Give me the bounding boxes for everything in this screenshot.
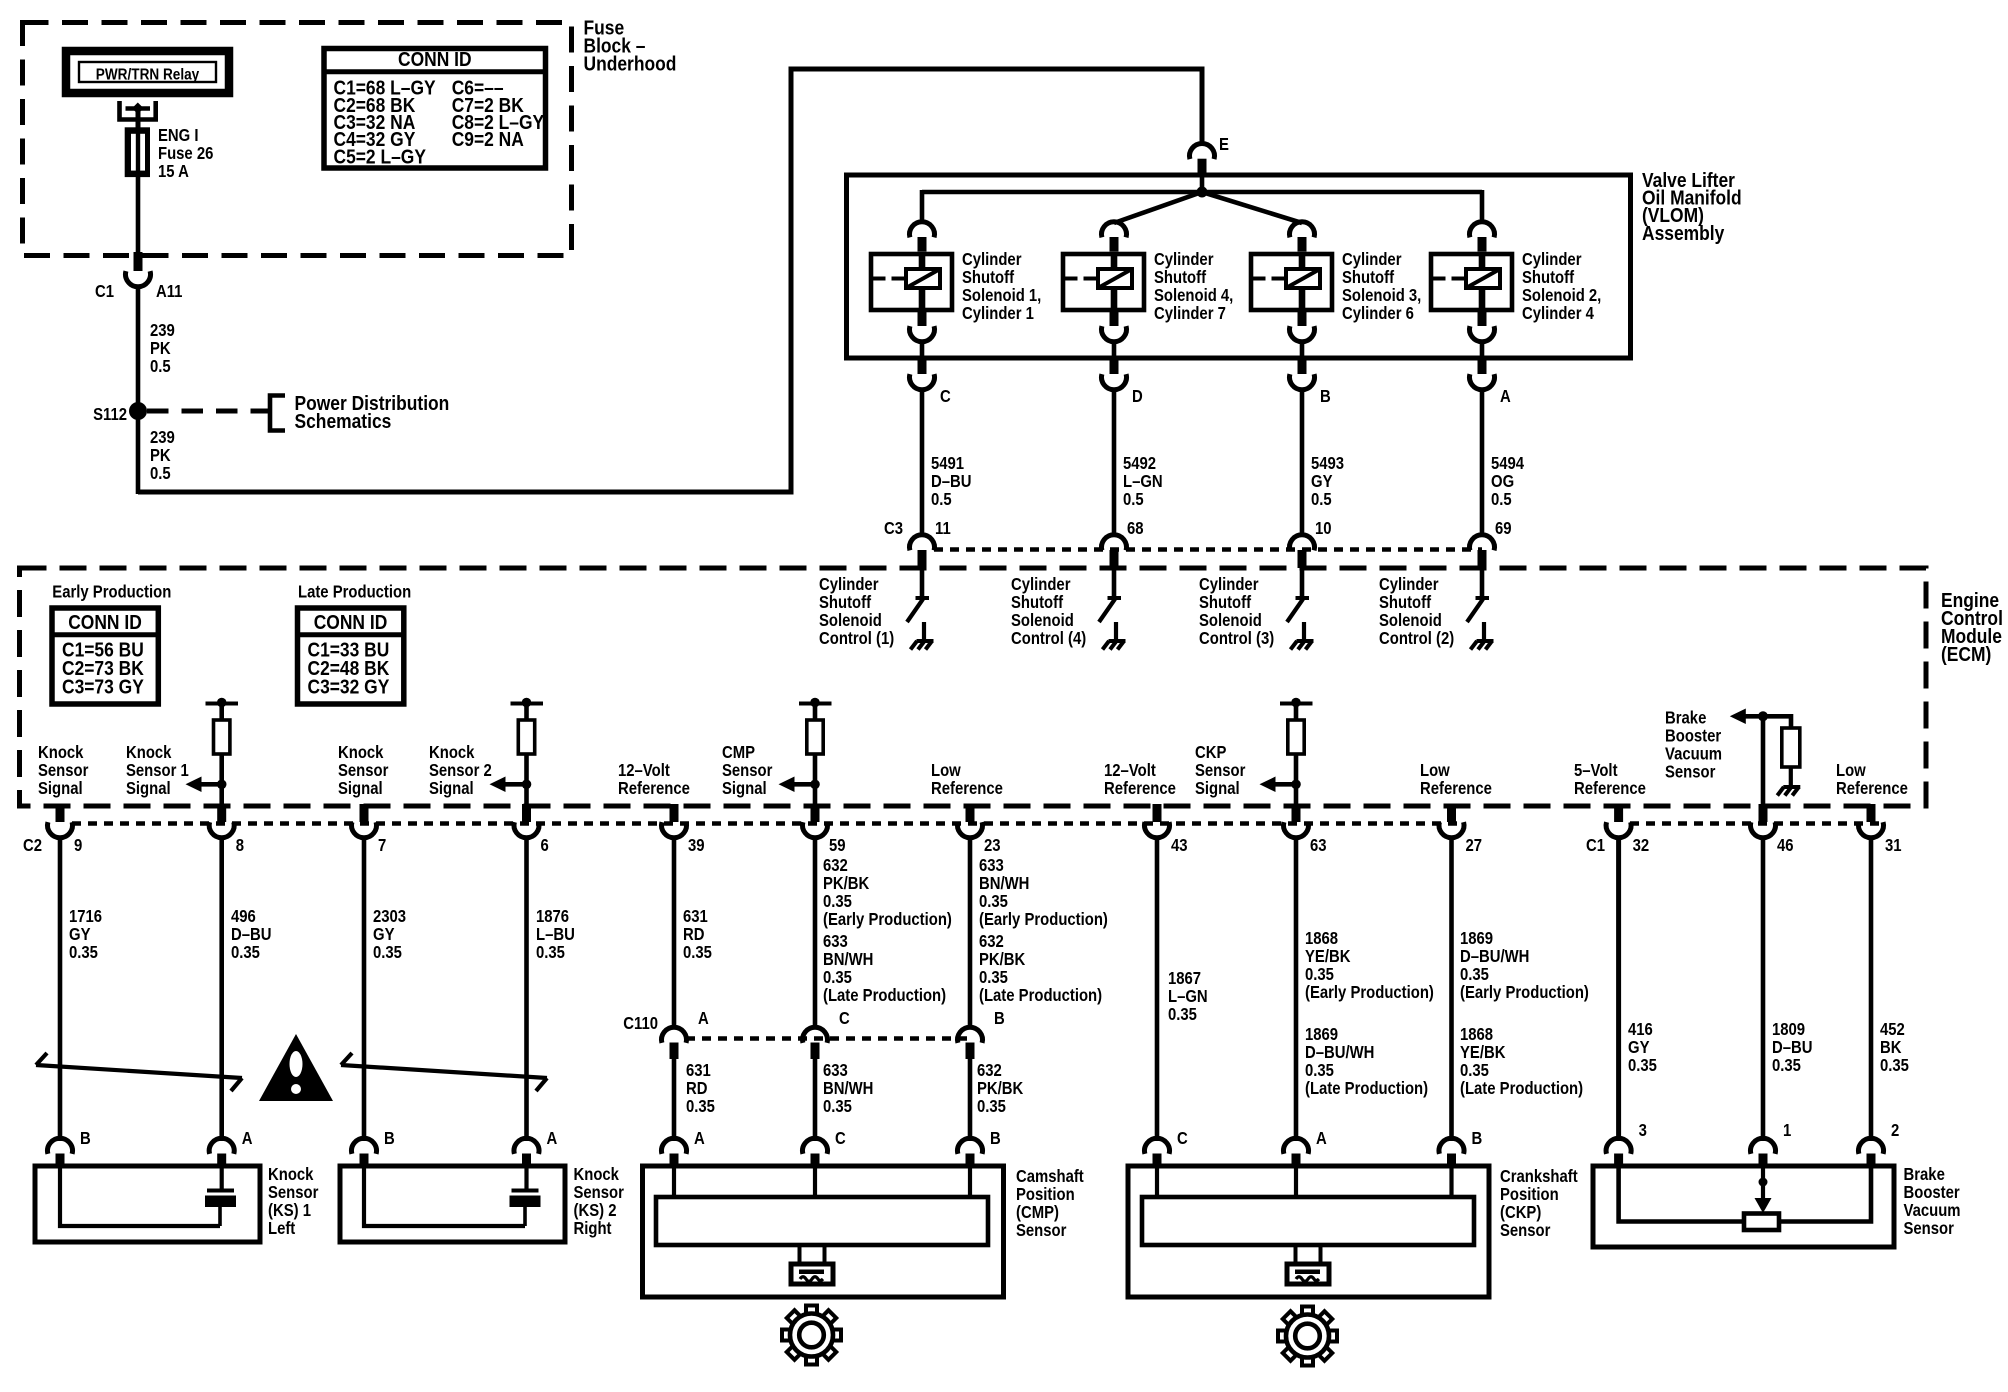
svg-text:YE/BK: YE/BK xyxy=(1460,1043,1506,1062)
svg-text:0.35: 0.35 xyxy=(1772,1056,1801,1075)
camshaft position CMP sensor box xyxy=(662,1138,687,1154)
svg-text:C: C xyxy=(835,1129,846,1148)
svg-text:Signal: Signal xyxy=(338,779,383,798)
svg-text:0.5: 0.5 xyxy=(1311,490,1332,509)
svg-text:1: 1 xyxy=(1783,1121,1791,1140)
svg-text:11: 11 xyxy=(935,519,951,538)
crankshaft position CKP sensor box xyxy=(1145,1138,1170,1154)
svg-text:D–BU: D–BU xyxy=(931,472,971,491)
svg-text:Sensor: Sensor xyxy=(1195,761,1246,780)
svg-text:1869: 1869 xyxy=(1305,1025,1338,1044)
svg-text:Signal: Signal xyxy=(1195,779,1240,798)
svg-text:Signal: Signal xyxy=(126,779,171,798)
svg-text:239: 239 xyxy=(150,428,175,447)
svg-text:Fuse 26: Fuse 26 xyxy=(158,144,213,163)
svg-text:0.35: 0.35 xyxy=(1460,965,1489,984)
wire 1716 GY 0.35 xyxy=(58,837,63,1141)
svg-text:Knock: Knock xyxy=(268,1165,314,1184)
svg-text:6: 6 xyxy=(541,836,549,855)
svg-text:1716: 1716 xyxy=(69,907,102,926)
svg-text:C9=2 NA: C9=2 NA xyxy=(452,129,524,152)
svg-text:3: 3 xyxy=(1639,1121,1647,1140)
svg-text:2: 2 xyxy=(1891,1121,1899,1140)
svg-text:Signal: Signal xyxy=(38,779,83,798)
svg-text:Vacuum: Vacuum xyxy=(1665,744,1722,763)
CKP sensor signal circuit pin 63 xyxy=(1280,702,1313,706)
svg-text:(CKP): (CKP) xyxy=(1500,1203,1541,1222)
svg-text:CMP: CMP xyxy=(722,743,755,762)
svg-text:0.35: 0.35 xyxy=(1628,1056,1657,1075)
svg-text:8: 8 xyxy=(236,836,244,855)
svg-text:633: 633 xyxy=(979,856,1004,875)
svg-text:496: 496 xyxy=(231,907,256,926)
svg-text:12–Volt: 12–Volt xyxy=(618,761,670,780)
ECM pin 23 xyxy=(966,804,975,822)
svg-text:C1: C1 xyxy=(1586,836,1605,855)
svg-text:RD: RD xyxy=(686,1079,708,1098)
svg-text:0.35: 0.35 xyxy=(823,1097,852,1116)
knock sensor KS1 box xyxy=(47,1138,72,1154)
svg-text:Shutoff: Shutoff xyxy=(1522,268,1575,287)
svg-text:YE/BK: YE/BK xyxy=(1305,947,1351,966)
bracket power distribution xyxy=(270,396,285,431)
svg-text:631: 631 xyxy=(683,907,708,926)
svg-text:Solenoid: Solenoid xyxy=(819,611,882,630)
svg-text:0.35: 0.35 xyxy=(1305,1061,1334,1080)
svg-text:0.5: 0.5 xyxy=(1123,490,1144,509)
wire 632/633 pin 59 xyxy=(813,837,818,1029)
svg-text:Knock: Knock xyxy=(338,743,384,762)
wire 1869/1868 pin 27 xyxy=(1449,837,1454,1141)
svg-text:0.35: 0.35 xyxy=(1460,1061,1489,1080)
svg-text:Assembly: Assembly xyxy=(1642,223,1725,246)
svg-text:RD: RD xyxy=(683,925,705,944)
svg-text:Vacuum: Vacuum xyxy=(1904,1201,1961,1220)
svg-text:BK: BK xyxy=(1880,1038,1902,1057)
wire 452 BK 0.35 xyxy=(1869,837,1874,1141)
svg-text:ENG I: ENG I xyxy=(158,126,198,145)
svg-text:B: B xyxy=(994,1009,1005,1028)
connector C1 dotted line xyxy=(1630,821,1880,826)
svg-text:CKP: CKP xyxy=(1195,743,1227,762)
svg-text:S112: S112 xyxy=(93,405,127,424)
svg-text:L–BU: L–BU xyxy=(536,925,575,944)
svg-text:PK/BK: PK/BK xyxy=(823,874,870,893)
svg-text:Cylinder: Cylinder xyxy=(1379,575,1439,594)
svg-text:Control (1): Control (1) xyxy=(819,629,894,648)
svg-text:(ECM): (ECM) xyxy=(1941,644,1991,667)
svg-text:B: B xyxy=(80,1129,91,1148)
svg-text:Solenoid 4,: Solenoid 4, xyxy=(1154,286,1233,305)
svg-text:0.35: 0.35 xyxy=(979,968,1008,987)
svg-text:0.35: 0.35 xyxy=(1305,965,1334,984)
svg-text:Cylinder 7: Cylinder 7 xyxy=(1154,304,1226,323)
svg-text:0.35: 0.35 xyxy=(373,943,402,962)
svg-text:(Early Production): (Early Production) xyxy=(1460,983,1589,1002)
svg-text:A: A xyxy=(547,1129,558,1148)
svg-text:C2: C2 xyxy=(23,836,42,855)
svg-text:32: 32 xyxy=(1633,836,1650,855)
wire 1868/1869 pin 63 xyxy=(1294,837,1299,1141)
svg-text:Reference: Reference xyxy=(1420,779,1492,798)
svg-text:D–BU/WH: D–BU/WH xyxy=(1305,1043,1374,1062)
svg-text:CONN ID: CONN ID xyxy=(314,612,388,635)
svg-text:Signal: Signal xyxy=(722,779,767,798)
svg-text:Sensor: Sensor xyxy=(1665,762,1716,781)
svg-text:Shutoff: Shutoff xyxy=(1199,593,1252,612)
svg-text:Low: Low xyxy=(1420,761,1450,780)
wire 631 RD 0.35 lower xyxy=(672,1058,677,1141)
knock sensor 2 signal circuit pin 6 xyxy=(511,702,544,706)
svg-text:GY: GY xyxy=(373,925,395,944)
ECM pin 46 xyxy=(1759,804,1768,822)
svg-text:0.35: 0.35 xyxy=(977,1097,1006,1116)
ECM pin 43 xyxy=(1153,804,1162,822)
svg-text:27: 27 xyxy=(1466,836,1483,855)
svg-text:Cylinder: Cylinder xyxy=(1011,575,1071,594)
svg-text:Reference: Reference xyxy=(1574,779,1646,798)
svg-text:C: C xyxy=(839,1009,850,1028)
ECM pin 8 xyxy=(217,804,226,822)
svg-text:Reference: Reference xyxy=(931,779,1003,798)
svg-text:C110: C110 xyxy=(623,1014,658,1033)
svg-text:B: B xyxy=(384,1129,395,1148)
svg-text:D–BU: D–BU xyxy=(1772,1038,1812,1057)
CMP sensor signal circuit pin 59 xyxy=(799,702,832,706)
ECM pin 59 xyxy=(811,804,820,822)
svg-text:1868: 1868 xyxy=(1460,1025,1493,1044)
svg-text:Low: Low xyxy=(931,761,961,780)
svg-text:0.35: 0.35 xyxy=(536,943,565,962)
svg-text:Low: Low xyxy=(1836,761,1866,780)
ECM pin 6 xyxy=(522,804,531,822)
svg-text:(CMP): (CMP) xyxy=(1016,1203,1059,1222)
svg-text:68: 68 xyxy=(1127,519,1144,538)
svg-text:BN/WH: BN/WH xyxy=(823,1079,873,1098)
svg-text:0.35: 0.35 xyxy=(1168,1005,1197,1024)
svg-text:15 A: 15 A xyxy=(158,162,189,181)
svg-text:Shutoff: Shutoff xyxy=(1154,268,1207,287)
svg-text:1869: 1869 xyxy=(1460,929,1493,948)
svg-text:1868: 1868 xyxy=(1305,929,1338,948)
svg-text:239: 239 xyxy=(150,321,175,340)
svg-text:Booster: Booster xyxy=(1665,726,1722,745)
svg-text:5–Volt: 5–Volt xyxy=(1574,761,1618,780)
svg-text:Control (2): Control (2) xyxy=(1379,629,1454,648)
svg-text:Shutoff: Shutoff xyxy=(962,268,1015,287)
svg-text:0.35: 0.35 xyxy=(823,892,852,911)
svg-text:Cylinder: Cylinder xyxy=(1342,250,1402,269)
svg-text:A: A xyxy=(694,1129,705,1148)
svg-text:Control (4): Control (4) xyxy=(1011,629,1086,648)
wire E junction split xyxy=(1200,177,1205,192)
svg-text:Cylinder: Cylinder xyxy=(1522,250,1582,269)
svg-text:Sensor: Sensor xyxy=(1904,1219,1955,1238)
svg-text:Left: Left xyxy=(268,1219,296,1238)
wire label 239 PK 0.5 xyxy=(136,286,141,407)
svg-text:Solenoid 2,: Solenoid 2, xyxy=(1522,286,1601,305)
wire 633/632 pin 23 xyxy=(968,837,973,1029)
svg-text:CONN ID: CONN ID xyxy=(398,49,472,72)
svg-text:(KS) 2: (KS) 2 xyxy=(574,1201,617,1220)
svg-text:B: B xyxy=(1320,387,1331,406)
connector C2 dotted line xyxy=(72,821,1462,826)
relay contact symbol xyxy=(120,101,156,120)
svg-text:633: 633 xyxy=(823,1061,848,1080)
knock sensor 1 signal circuit pin 8 xyxy=(206,702,239,706)
svg-text:C3=32 GY: C3=32 GY xyxy=(308,676,390,699)
ECM pin 39 xyxy=(670,804,679,822)
svg-text:0.35: 0.35 xyxy=(683,943,712,962)
fuse ENG I Fuse 26 15A xyxy=(127,130,147,175)
ECM pin 9 xyxy=(56,804,65,822)
wire 1876 L-BU 0.35 xyxy=(524,837,529,1141)
svg-text:Cylinder 4: Cylinder 4 xyxy=(1522,304,1594,323)
svg-text:Position: Position xyxy=(1016,1185,1075,1204)
svg-text:Reference: Reference xyxy=(1836,779,1908,798)
svg-text:416: 416 xyxy=(1628,1020,1653,1039)
svg-text:D: D xyxy=(1132,387,1143,406)
svg-text:Reference: Reference xyxy=(618,779,690,798)
svg-text:C5=2 L–GY: C5=2 L–GY xyxy=(334,146,427,169)
svg-text:0.35: 0.35 xyxy=(69,943,98,962)
svg-text:(Late Production): (Late Production) xyxy=(1460,1079,1583,1098)
svg-text:Shutoff: Shutoff xyxy=(1011,593,1064,612)
splice S112 xyxy=(129,402,147,420)
harness interrupt arrow right xyxy=(341,1065,547,1078)
svg-text:Signal: Signal xyxy=(429,779,474,798)
svg-text:5493: 5493 xyxy=(1311,454,1344,473)
svg-text:Late Production: Late Production xyxy=(298,582,411,601)
svg-text:Shutoff: Shutoff xyxy=(1342,268,1395,287)
svg-text:Knock: Knock xyxy=(429,743,475,762)
wire 633 BN/WH 0.35 lower xyxy=(813,1058,818,1141)
svg-text:OG: OG xyxy=(1491,472,1514,491)
svg-text:63: 63 xyxy=(1310,836,1327,855)
knock sensor KS2 box xyxy=(352,1138,377,1154)
svg-text:PK: PK xyxy=(150,446,171,465)
ECM pin 32 xyxy=(1614,804,1623,822)
svg-text:A11: A11 xyxy=(156,282,182,301)
svg-text:0.35: 0.35 xyxy=(979,892,1008,911)
svg-text:43: 43 xyxy=(1171,836,1188,855)
svg-text:Solenoid: Solenoid xyxy=(1011,611,1074,630)
wire relay to fuse xyxy=(136,111,141,130)
dashed wire to power distribution ref xyxy=(147,409,255,414)
fuse block underhood dashed box xyxy=(23,23,572,256)
svg-text:Brake: Brake xyxy=(1665,708,1706,727)
svg-text:Sensor 1: Sensor 1 xyxy=(126,761,189,780)
svg-text:BN/WH: BN/WH xyxy=(979,874,1029,893)
svg-text:632: 632 xyxy=(823,856,848,875)
svg-text:7: 7 xyxy=(378,836,386,855)
svg-text:Knock: Knock xyxy=(38,743,84,762)
svg-text:Cylinder: Cylinder xyxy=(1154,250,1214,269)
wire S112 to VLOM feed E xyxy=(138,69,1202,492)
brake booster vacuum sensor box xyxy=(1606,1138,1631,1154)
svg-text:A: A xyxy=(1316,1129,1327,1148)
svg-text:Control (3): Control (3) xyxy=(1199,629,1274,648)
svg-text:Position: Position xyxy=(1500,1185,1559,1204)
svg-text:0.35: 0.35 xyxy=(686,1097,715,1116)
svg-text:(Early Production): (Early Production) xyxy=(979,910,1108,929)
ECM pin 7 xyxy=(360,804,369,822)
svg-text:0.35: 0.35 xyxy=(231,943,260,962)
svg-text:BN/WH: BN/WH xyxy=(823,950,873,969)
svg-text:Sensor: Sensor xyxy=(268,1183,319,1202)
svg-text:Sensor: Sensor xyxy=(1016,1221,1067,1240)
svg-text:Sensor: Sensor xyxy=(1500,1221,1551,1240)
CMP connector plug xyxy=(800,1246,825,1264)
cylinder shutoff solenoid 1 cylinder 1 xyxy=(909,222,934,238)
svg-text:(Late Production): (Late Production) xyxy=(823,986,946,1005)
svg-text:L–GN: L–GN xyxy=(1168,987,1208,1006)
svg-text:C3=73 GY: C3=73 GY xyxy=(62,676,144,699)
svg-text:Underhood: Underhood xyxy=(584,53,677,76)
svg-text:632: 632 xyxy=(977,1061,1002,1080)
svg-text:39: 39 xyxy=(688,836,705,855)
svg-text:0.5: 0.5 xyxy=(150,464,171,483)
svg-text:PWR/TRN Relay: PWR/TRN Relay xyxy=(96,67,200,84)
svg-text:Reference: Reference xyxy=(1104,779,1176,798)
svg-text:A: A xyxy=(1500,387,1511,406)
CMP gear xyxy=(782,1306,841,1365)
svg-text:Sensor: Sensor xyxy=(338,761,389,780)
svg-text:23: 23 xyxy=(984,836,1001,855)
svg-text:632: 632 xyxy=(979,932,1004,951)
svg-text:5492: 5492 xyxy=(1123,454,1156,473)
svg-text:0.5: 0.5 xyxy=(1491,490,1512,509)
wire label 239 PK 0.5 lower xyxy=(136,415,141,494)
svg-text:PK/BK: PK/BK xyxy=(979,950,1026,969)
svg-text:Sensor: Sensor xyxy=(38,761,89,780)
svg-text:5494: 5494 xyxy=(1491,454,1524,473)
svg-text:C3: C3 xyxy=(884,519,903,538)
svg-text:GY: GY xyxy=(1311,472,1333,491)
svg-text:(Late Production): (Late Production) xyxy=(1305,1079,1428,1098)
svg-text:D–BU/WH: D–BU/WH xyxy=(1460,947,1529,966)
svg-text:A: A xyxy=(242,1129,253,1148)
connector C3 row pins 11 68 10 69 xyxy=(934,547,1482,552)
wire 1809 D-BU 0.35 xyxy=(1761,837,1766,1141)
ECM pin 27 xyxy=(1447,804,1456,822)
cylinder shutoff solenoid 2 cylinder 4 xyxy=(1469,222,1494,238)
wire 496 D-BU 0.35 xyxy=(219,837,224,1141)
connector C110 row xyxy=(686,1036,970,1041)
svg-text:GY: GY xyxy=(1628,1038,1650,1057)
svg-text:Solenoid 3,: Solenoid 3, xyxy=(1342,286,1421,305)
svg-text:Solenoid 1,: Solenoid 1, xyxy=(962,286,1041,305)
svg-text:Crankshaft: Crankshaft xyxy=(1500,1167,1578,1186)
svg-text:B: B xyxy=(990,1129,1001,1148)
svg-text:L–GN: L–GN xyxy=(1123,472,1163,491)
CKP gear xyxy=(1278,1307,1337,1366)
svg-text:Early Production: Early Production xyxy=(52,582,171,601)
solenoid control switches in ECM xyxy=(920,570,925,598)
svg-text:GY: GY xyxy=(69,925,91,944)
wire 631 RD 0.35 xyxy=(672,837,677,1029)
svg-text:A: A xyxy=(698,1009,709,1028)
svg-text:633: 633 xyxy=(823,932,848,951)
svg-text:Cylinder 1: Cylinder 1 xyxy=(962,304,1034,323)
VLOM assembly box xyxy=(847,175,1631,358)
svg-text:PK/BK: PK/BK xyxy=(977,1079,1024,1098)
svg-text:Cylinder: Cylinder xyxy=(819,575,879,594)
svg-text:0.35: 0.35 xyxy=(1880,1056,1909,1075)
svg-text:C: C xyxy=(1177,1129,1188,1148)
svg-text:Solenoid: Solenoid xyxy=(1199,611,1262,630)
PWR/TRN Relay box xyxy=(66,51,229,93)
svg-text:Cylinder 6: Cylinder 6 xyxy=(1342,304,1414,323)
wire 416 GY 0.35 xyxy=(1616,837,1621,1141)
svg-text:0.5: 0.5 xyxy=(150,357,171,376)
wire 632 PK/BK 0.35 lower xyxy=(968,1058,973,1141)
VLOM bottom pins C D B A xyxy=(918,356,927,374)
warning triangle xyxy=(259,1034,333,1101)
svg-text:E: E xyxy=(1219,135,1229,154)
CONN ID table fuse block xyxy=(324,49,546,169)
svg-text:Solenoid: Solenoid xyxy=(1379,611,1442,630)
svg-text:(Late Production): (Late Production) xyxy=(979,986,1102,1005)
wire fuse to connector C1 xyxy=(136,175,141,254)
svg-text:Booster: Booster xyxy=(1904,1183,1961,1202)
svg-text:Cylinder: Cylinder xyxy=(1199,575,1259,594)
svg-text:Shutoff: Shutoff xyxy=(819,593,872,612)
CKP connector plug xyxy=(1296,1246,1321,1264)
svg-text:59: 59 xyxy=(829,836,846,855)
ECM pin 31 xyxy=(1867,804,1876,822)
svg-text:1867: 1867 xyxy=(1168,969,1201,988)
svg-text:10: 10 xyxy=(1315,519,1332,538)
svg-text:C: C xyxy=(940,387,951,406)
brake booster internal circuit xyxy=(1619,1168,1744,1222)
svg-text:(Early Production): (Early Production) xyxy=(823,910,952,929)
svg-text:Brake: Brake xyxy=(1904,1165,1945,1184)
svg-text:CONN ID: CONN ID xyxy=(68,612,142,635)
svg-text:PK: PK xyxy=(150,339,171,358)
svg-text:Sensor 2: Sensor 2 xyxy=(429,761,492,780)
svg-text:Shutoff: Shutoff xyxy=(1379,593,1432,612)
svg-text:1876: 1876 xyxy=(536,907,569,926)
wire labels 5491 5492 5493 5494 xyxy=(920,389,925,536)
ECM pin 63 xyxy=(1292,804,1301,822)
ECM dashed box xyxy=(20,568,1927,806)
cylinder shutoff solenoid 3 cylinder 6 xyxy=(1290,222,1315,238)
svg-text:0.35: 0.35 xyxy=(823,968,852,987)
svg-text:Sensor: Sensor xyxy=(574,1183,625,1202)
svg-text:631: 631 xyxy=(686,1061,711,1080)
connector C1 A11 xyxy=(134,252,143,271)
svg-text:(Early Production): (Early Production) xyxy=(1305,983,1434,1002)
svg-text:5491: 5491 xyxy=(931,454,964,473)
wire 1867 L-GN 0.35 xyxy=(1155,837,1160,1141)
svg-text:Camshaft: Camshaft xyxy=(1016,1167,1084,1186)
svg-text:9: 9 xyxy=(74,836,82,855)
svg-text:C1: C1 xyxy=(95,282,114,301)
wire 2303 GY 0.35 xyxy=(362,837,367,1141)
svg-text:31: 31 xyxy=(1885,836,1902,855)
svg-text:Sensor: Sensor xyxy=(722,761,773,780)
svg-text:Schematics: Schematics xyxy=(295,411,392,434)
connector E xyxy=(1190,143,1215,159)
cylinder shutoff solenoid 4 cylinder 7 xyxy=(1102,222,1127,238)
svg-text:(KS) 1: (KS) 1 xyxy=(268,1201,311,1220)
svg-text:Cylinder: Cylinder xyxy=(962,250,1022,269)
svg-text:69: 69 xyxy=(1495,519,1512,538)
svg-text:0.5: 0.5 xyxy=(931,490,952,509)
svg-text:46: 46 xyxy=(1777,836,1794,855)
svg-text:12–Volt: 12–Volt xyxy=(1104,761,1156,780)
